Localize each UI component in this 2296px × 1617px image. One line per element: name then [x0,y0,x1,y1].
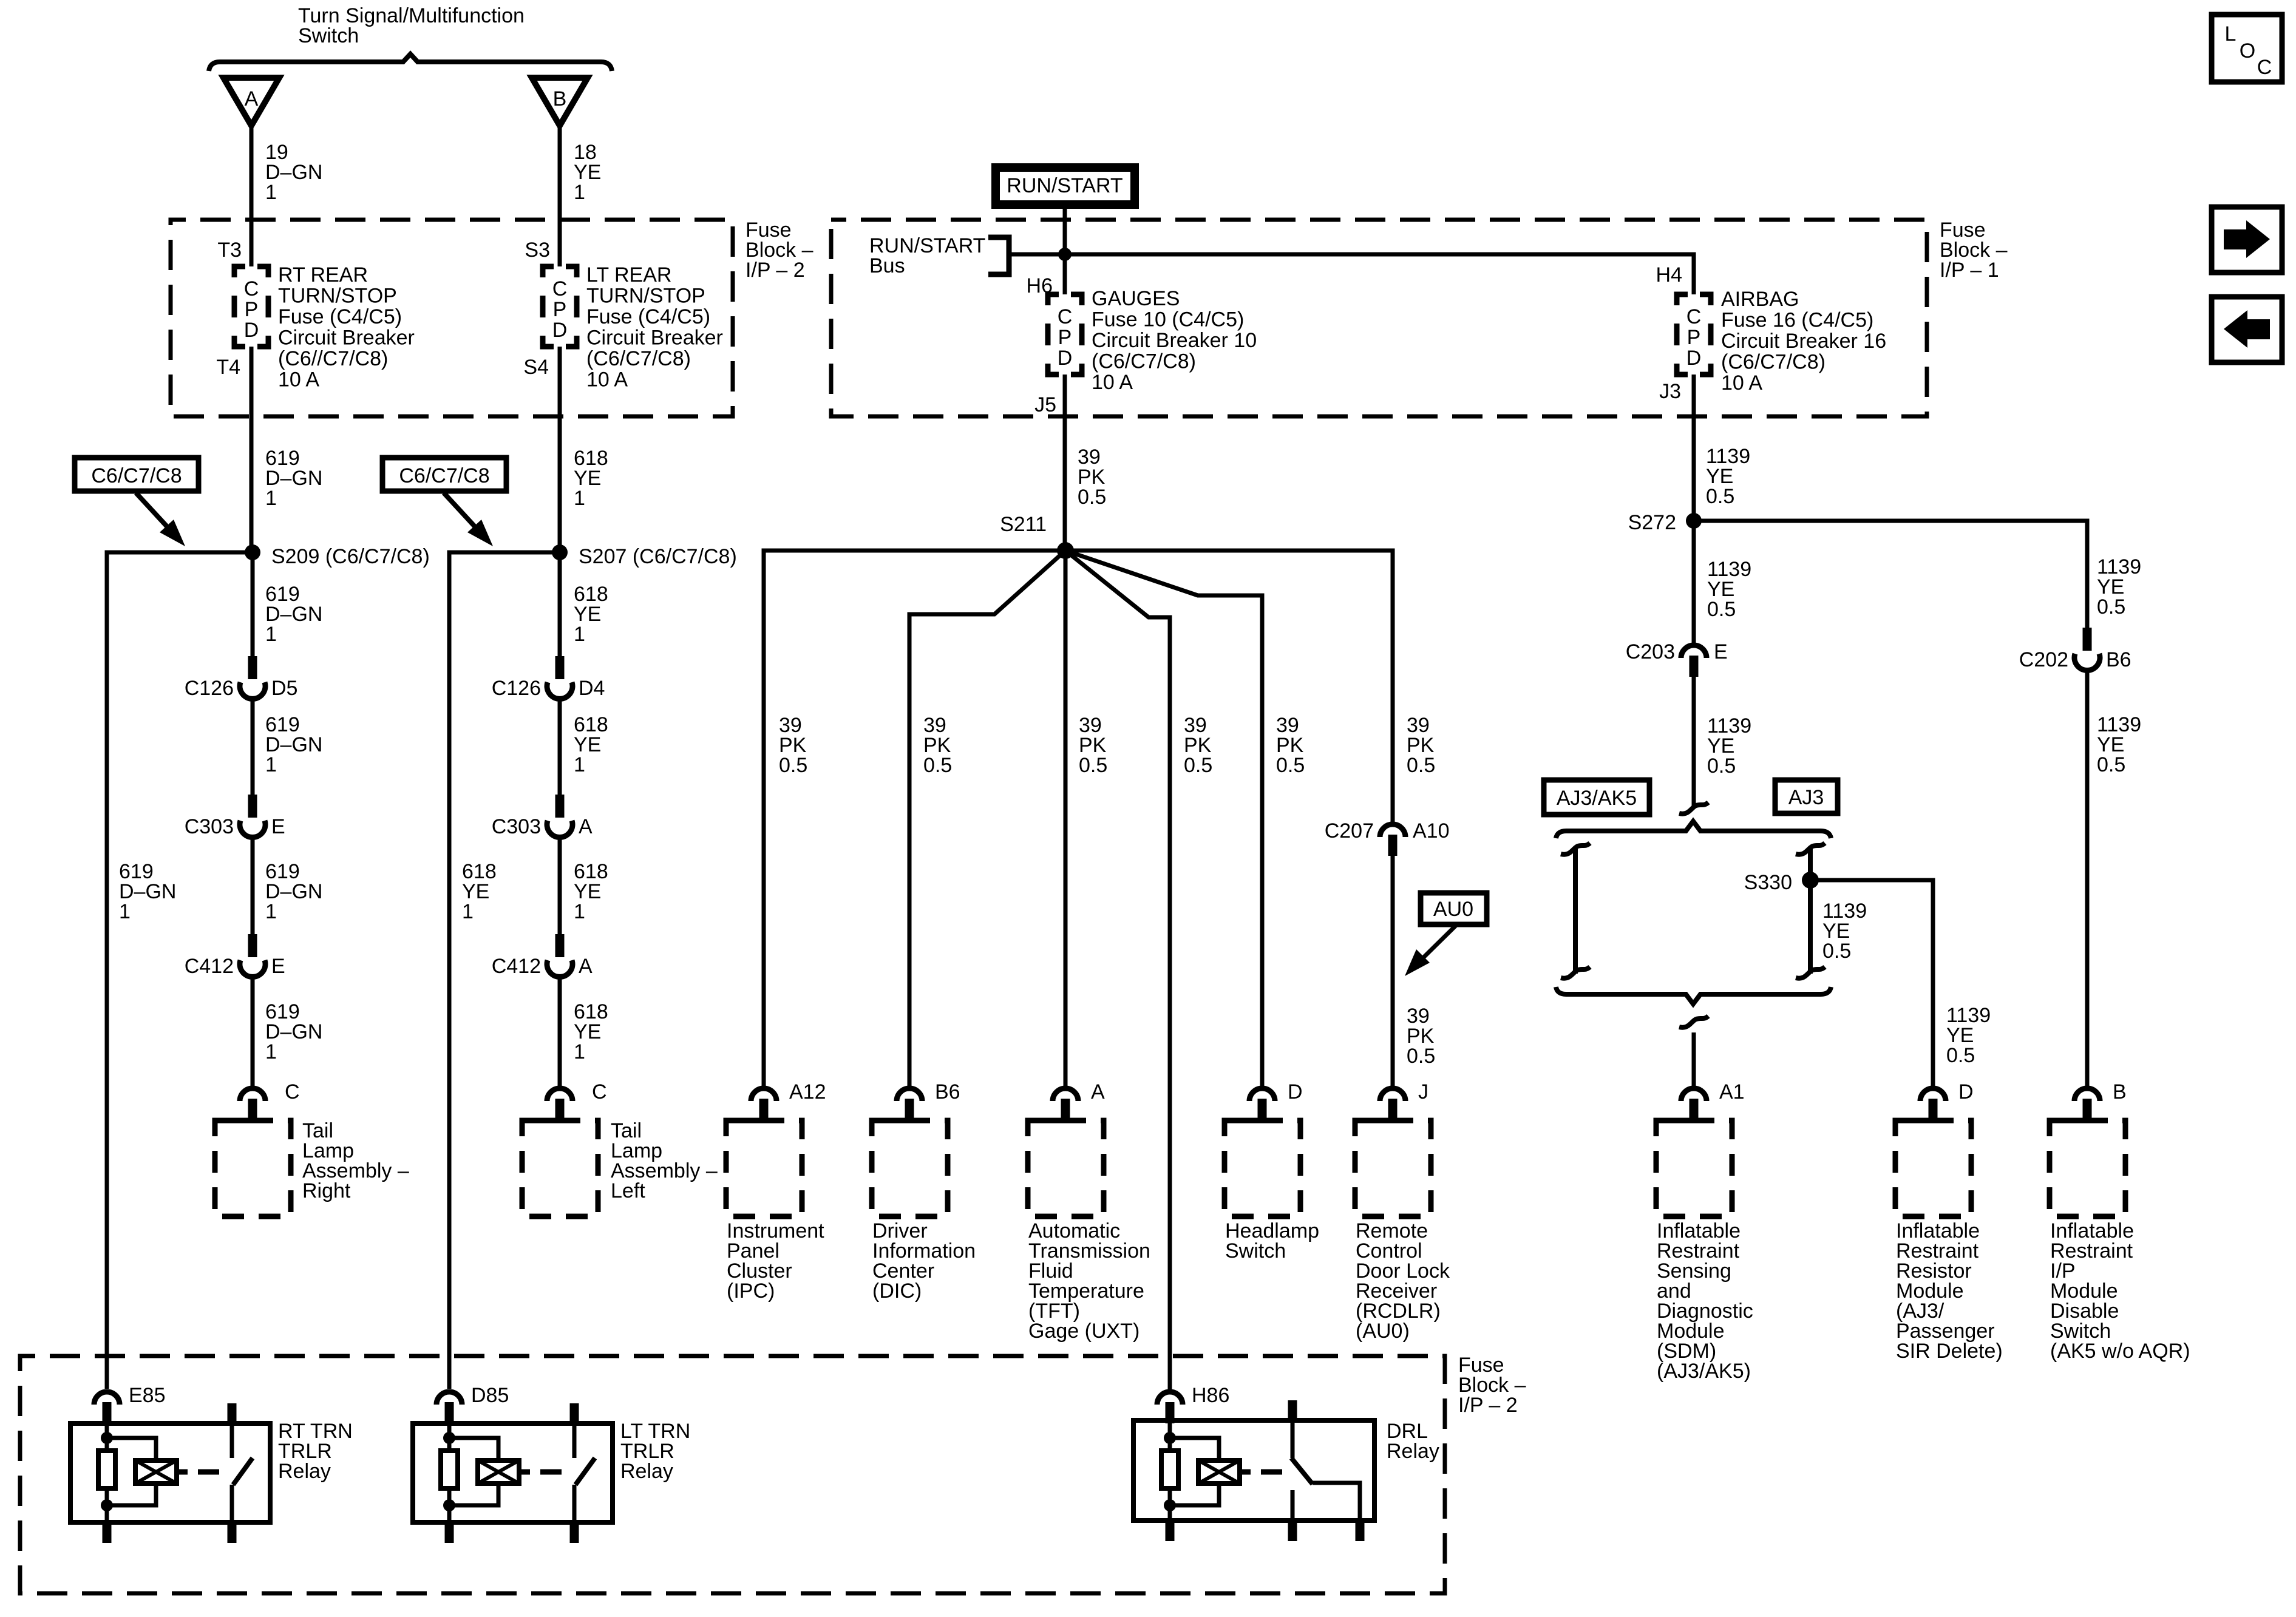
svg-text:A: A [245,87,259,110]
svg-text:E: E [1714,640,1728,663]
fuse block I/P-2 bottom dashed box [20,1356,1445,1593]
wire 618 below C126 [558,700,562,795]
connector E85 [94,1392,120,1405]
wire 618 below S207 [558,552,562,659]
wire 618 below C303 [558,839,562,934]
svg-text:J: J [1418,1080,1428,1103]
wire 19 D-GN from A [250,126,254,266]
AJ3/AK5 option tag [1544,780,1649,815]
arrow from AU0 [1419,924,1457,962]
connector B6 at DIC [897,1088,922,1101]
wire RUN/START to bus [1063,209,1067,294]
AJ3 option tag [1775,780,1838,813]
svg-text:AU0: AU0 [1433,898,1473,921]
svg-text:S4: S4 [523,356,549,379]
svg-text:E: E [271,815,285,838]
connector A at TFT gage [1053,1088,1078,1101]
coil to switch dashed link [519,1470,530,1475]
connector C at tail lamp left [547,1088,572,1101]
connector C303 pin E [248,795,257,818]
svg-text:C: C [1058,305,1073,328]
connector C207 pin A10 [1380,824,1405,837]
wire 619 below C303 [251,839,255,934]
tail lamp assembly left box [522,1120,598,1216]
svg-text:D: D [1058,347,1073,370]
connector A1 at SDM [1681,1088,1707,1101]
svg-text:J3: J3 [1659,380,1681,403]
relay resistor [1161,1451,1178,1488]
svg-text:S207 (C6/C7/C8): S207 (C6/C7/C8) [579,545,737,568]
svg-text:P: P [553,298,567,321]
svg-text:H86: H86 [1192,1384,1229,1407]
SDM box [1656,1120,1732,1216]
wire 619 below C126 [251,700,255,795]
svg-text:D: D [1686,347,1702,370]
svg-text:L: L [2225,22,2237,46]
svg-text:P: P [1687,326,1701,349]
svg-text:A10: A10 [1413,819,1450,842]
connector C412 pin E [248,934,257,957]
splice S207 [552,544,568,560]
wire 619 D-GN below fuse [250,347,254,552]
wire below resistor [447,1488,452,1522]
S211 branch to C207 [1065,551,1393,822]
wire 1139 below C202 [2085,672,2090,1086]
coil to switch dashed link [177,1470,188,1475]
svg-text:D85: D85 [471,1384,509,1407]
connector C203 pin E [1681,645,1707,658]
option brace bottom [1556,987,1831,1004]
svg-text:C412: C412 [185,955,234,978]
I/P module disable switch box [2050,1120,2125,1216]
svg-text:S209 (C6/C7/C8): S209 (C6/C7/C8) [271,545,430,568]
svg-text:C6/C7/C8: C6/C7/C8 [399,464,489,487]
S211 branch to A12 [764,551,1065,1086]
wire below resistor [1168,1488,1172,1520]
option brace top [1556,821,1831,838]
C6/C7/C8 callout box right [382,458,506,491]
LT TRN TRLR relay [413,1423,613,1522]
wire below resistor [105,1488,109,1522]
svg-text:D: D [552,319,568,342]
wire 1139 below C203 [1692,677,1696,807]
svg-text:B: B [2113,1080,2127,1103]
svg-text:C: C [2257,56,2272,79]
svg-text:A: A [579,955,593,978]
svg-text:C203: C203 [1626,640,1675,663]
relay switch [228,1403,237,1423]
RT TRN TRLR relay [70,1423,270,1522]
arrow to S207 [444,493,480,532]
left arrow box [2212,297,2282,362]
relay coil [1170,1438,1219,1460]
svg-text:D: D [1958,1080,1974,1103]
connector triangle A [223,78,279,126]
svg-text:E85: E85 [129,1384,166,1407]
svg-text:D4: D4 [579,677,605,700]
connector C202 pin B6 [2083,628,2092,651]
relay coil [107,1438,156,1460]
svg-text:B6: B6 [2106,648,2131,671]
svg-text:H4: H4 [1656,263,1682,286]
brace over connectors A and B [209,54,612,71]
S211 branch to headlamp switch [1065,551,1262,1086]
connector C126 pin D5 [248,656,257,679]
wire 39 PK from J5 [1063,375,1067,551]
svg-text:AJ3/AK5: AJ3/AK5 [1557,787,1637,810]
wire 39 PK below C207 [1391,856,1395,1086]
relay resistor [441,1451,458,1488]
connector D at resistor module [1920,1088,1946,1101]
svg-text:C: C [244,277,259,300]
relay coil feed wire [447,1423,452,1451]
svg-text:J5: J5 [1034,393,1056,416]
svg-text:C126: C126 [492,677,541,700]
splice S211 [1057,542,1074,559]
wire 1139 below S272 [1692,521,1696,643]
inflatable restraint resistor module box [1895,1120,1971,1216]
TFT gage box [1028,1120,1104,1216]
svg-text:D5: D5 [271,677,297,700]
svg-text:C412: C412 [492,955,541,978]
relay resistor [98,1451,115,1488]
coil to switch dashed link [1240,1470,1251,1475]
relay coil [449,1438,498,1460]
option bracket left [1573,849,1578,974]
connector triangle B [532,78,588,126]
RCDLR box [1355,1120,1431,1216]
driver information center box [872,1120,948,1216]
wire branch S209 to E85 [107,552,253,1389]
svg-text:C207: C207 [1325,819,1374,842]
svg-text:C6/C7/C8: C6/C7/C8 [91,464,182,487]
wire S330 to resistor module [1810,880,1933,1086]
connector J at RCDLR [1380,1088,1405,1101]
relay coil feed wire [105,1423,109,1451]
LOC legend box [2212,15,2282,82]
svg-text:C: C [552,277,568,300]
svg-text:P: P [245,298,259,321]
svg-text:RUN/START: RUN/START [1007,174,1123,197]
wire 618 below C412 [558,978,562,1086]
relay switch [1288,1400,1297,1420]
connector A12 at IPC [751,1088,776,1101]
C6/C7/C8 callout box left [75,458,199,491]
S211 branch to DRL relay [1065,551,1170,1389]
svg-text:A: A [1091,1080,1105,1103]
connector C126 pin D4 [555,656,565,679]
connector D85 [436,1392,462,1405]
svg-text:C126: C126 [185,677,234,700]
fuse block I/P-1 dashed box (middle) [831,220,1927,416]
svg-text:A: A [579,815,593,838]
svg-text:AJ3: AJ3 [1788,786,1824,809]
svg-text:C: C [1686,305,1702,328]
svg-text:O: O [2240,39,2255,63]
wire 619 below C412 [251,978,255,1086]
svg-text:C303: C303 [492,815,541,838]
connector C412 pin A [555,934,565,957]
svg-text:S211: S211 [1000,513,1047,536]
svg-text:A1: A1 [1719,1080,1745,1103]
svg-text:B: B [553,87,567,110]
svg-text:S272: S272 [1628,511,1676,534]
svg-text:S3: S3 [525,239,550,262]
wire break at AJ3 section top [1679,802,1708,814]
arrow to S209 [136,493,172,532]
svg-text:C: C [592,1080,607,1103]
relay coil feed wire [1168,1420,1172,1451]
DRL relay [1133,1420,1374,1520]
wire 619 below S209 [251,552,255,659]
svg-text:D: D [244,319,259,342]
wire branch S207 to D85 [449,552,560,1389]
svg-text:T3: T3 [217,239,242,262]
tail lamp assembly right box [215,1120,291,1216]
svg-text:A12: A12 [789,1080,826,1103]
S211 branch to B6 [909,551,1065,1086]
wire S272 to C202 branch [1694,521,2087,628]
svg-text:D: D [1288,1080,1303,1103]
svg-text:C303: C303 [185,815,234,838]
svg-text:B6: B6 [935,1080,960,1103]
bus wire to H4 [1009,254,1694,294]
relay switch [570,1403,579,1423]
svg-text:T4: T4 [216,356,240,379]
headlamp switch box [1224,1120,1300,1216]
connector H86 [1157,1392,1183,1405]
wire break below option section [1679,1016,1708,1028]
instrument panel cluster box [726,1120,802,1216]
connector C at tail lamp right [240,1088,265,1101]
svg-text:C202: C202 [2019,648,2068,671]
S211 branch to TFT gage [1064,551,1068,1086]
wire 18 YE from B [558,126,562,266]
wire 1139 YE below J3 [1692,375,1696,521]
splice S209 [245,544,260,560]
connector C303 pin A [555,795,565,818]
svg-text:P: P [1058,326,1072,349]
svg-text:S330: S330 [1744,871,1792,894]
fuse block I/P-2 dashed box [171,220,733,416]
AU0 option tag [1421,893,1487,924]
wire to SDM [1692,1032,1696,1086]
RUN/START power tag [996,168,1135,205]
right arrow box [2212,207,2282,273]
wire 618 YE below fuse [558,347,562,552]
svg-text:E: E [271,955,285,978]
splice S272 [1686,513,1702,529]
connector D at headlamp switch [1249,1088,1275,1101]
junction on bus [1058,248,1072,261]
svg-text:C: C [285,1080,300,1103]
option bracket right [1808,849,1813,974]
connector B at disable switch [2074,1088,2100,1101]
